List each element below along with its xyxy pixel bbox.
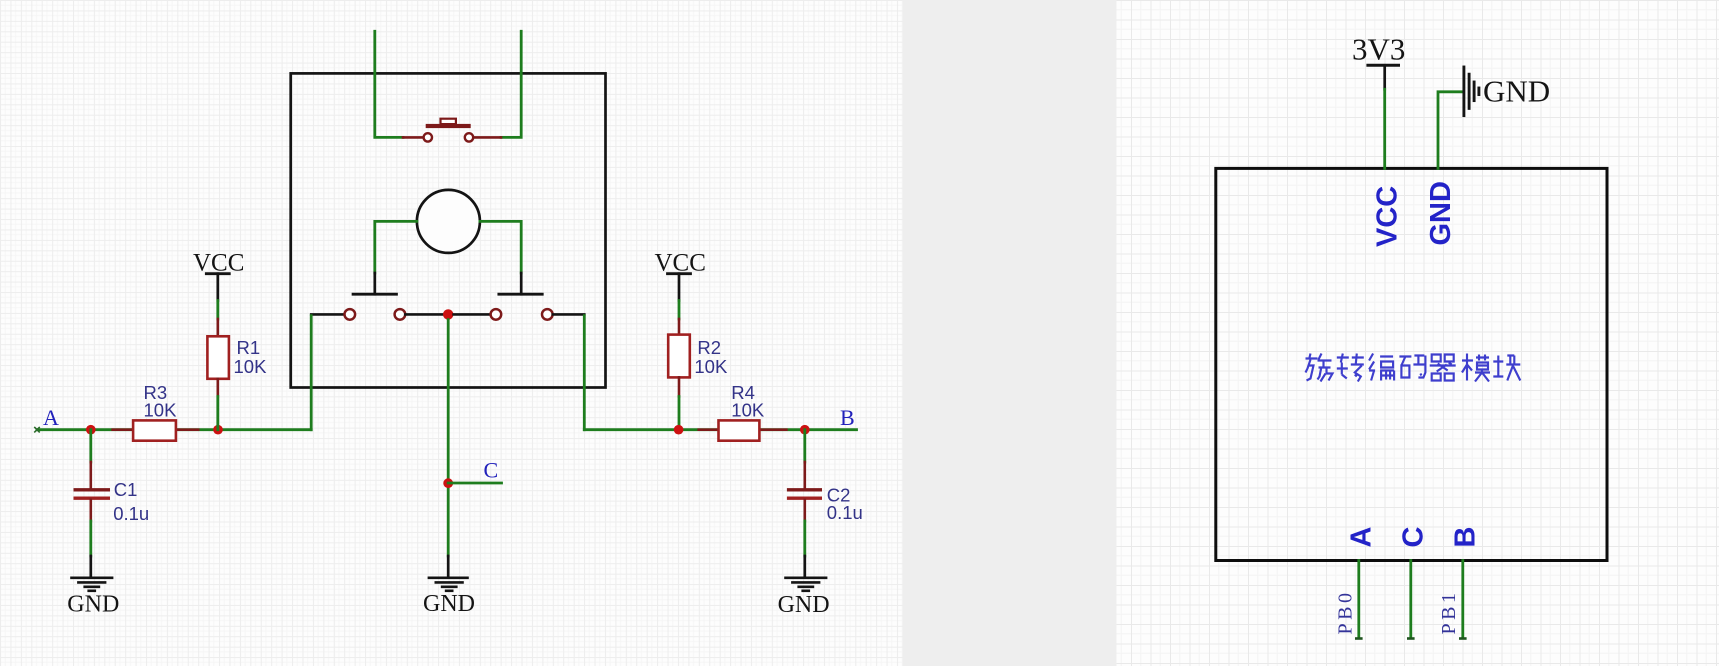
contact circle 5 (542, 309, 553, 320)
wire: 3V3 to VCC pin (1383, 89, 1386, 168)
capacitor C2 plate bottom (787, 497, 822, 500)
ground GND3 bars (786, 578, 827, 591)
power port VCC1 bar (206, 272, 229, 275)
capacitor C1 plate bottom (74, 497, 111, 500)
wire: contact row mid-left (405, 313, 442, 316)
wire: wheel right (480, 221, 521, 273)
title char 旋 (1306, 354, 1333, 382)
svg-text:GND: GND (67, 592, 119, 618)
wire: C1 to GND (89, 521, 92, 556)
push button bar (426, 124, 471, 128)
resistor R2 lead top (678, 319, 681, 335)
resistor R2 body (668, 335, 690, 378)
capacitor C2 lead bottom (803, 500, 806, 521)
power port VCC2 bar (668, 272, 691, 275)
left grid background (0, 0, 903, 666)
wire: right corner down to node B (583, 316, 586, 430)
svg-text:C: C (484, 457, 499, 482)
encoder body outline S1 (291, 73, 606, 387)
resistor R1 lead bottom (217, 379, 220, 397)
ground GND3 stem (803, 556, 806, 577)
wire: VCC2 to R2 (678, 301, 681, 320)
pin wire A (1357, 561, 1360, 638)
resistor R3 lead left (113, 428, 134, 431)
pin B end tick (1460, 637, 1465, 640)
ground GND2 bars (429, 578, 468, 591)
contact circle 2 (395, 309, 406, 320)
svg-text:C1: C1 (114, 479, 138, 500)
node A end marker (35, 428, 39, 432)
capacitor C2 plate top (787, 488, 822, 491)
resistor R3 body (133, 420, 176, 440)
wire: node C vertical (447, 320, 450, 556)
svg-text:GND: GND (423, 591, 475, 617)
resistor R2 lead bottom (678, 377, 681, 396)
svg-text:10K: 10K (234, 356, 268, 377)
svg-text:GND: GND (778, 592, 830, 618)
wire: R1 to node A (216, 397, 219, 430)
power port 3V3 stem (1383, 65, 1386, 89)
wire: wheel left (375, 221, 417, 273)
module title 旋转编码器模块 (drawn strokes) (1306, 354, 1521, 382)
pin A end tick (1356, 637, 1361, 640)
ground power port bars (1464, 67, 1479, 116)
wire: node A down to C1 (89, 430, 92, 462)
svg-text:B: B (1449, 527, 1481, 548)
right grid background (1117, 0, 1719, 666)
push button actuator (441, 119, 456, 124)
wire: contact row mid-right (454, 313, 491, 316)
wire: phase B top vertical (501, 31, 521, 137)
junction dot B-C2 (800, 425, 810, 435)
push button SW right lead (475, 136, 501, 139)
svg-text:GND: GND (1483, 74, 1550, 109)
capacitor C2 lead top (803, 462, 806, 488)
pin wire B (1461, 561, 1464, 638)
encoder wheel circle (417, 190, 480, 253)
wire: node B down to C2 (803, 430, 806, 462)
ground GND2 stem (447, 556, 450, 577)
svg-text:VCC: VCC (1372, 186, 1404, 247)
wire: phase A top vertical (375, 31, 403, 137)
push button contact right (465, 133, 473, 141)
junction dot A-C1 (86, 425, 96, 435)
pin wire C (1409, 561, 1412, 638)
wire: node A horizontal (37, 428, 311, 431)
svg-text:10K: 10K (694, 356, 728, 377)
resistor R1 body (207, 336, 229, 379)
svg-text:10K: 10K (731, 399, 765, 420)
push button SW left lead (403, 136, 423, 139)
svg-text:A: A (1345, 527, 1377, 548)
wire: contact row right (553, 313, 585, 316)
resistor R3 lead right (176, 428, 198, 431)
wire: GND pin up (1438, 92, 1463, 169)
resistor R1 lead top (217, 319, 220, 336)
contact circle 4 (491, 309, 502, 320)
svg-text:B: B (840, 405, 855, 430)
capacitor C1 plate top (74, 488, 111, 491)
wiper A bar (353, 293, 396, 296)
svg-text:A: A (43, 405, 59, 430)
wire: node C stub (448, 482, 501, 485)
power port VCC1 stem (216, 274, 219, 301)
resistor R4 body (719, 420, 760, 440)
power port VCC2 stem (678, 274, 681, 301)
wire: contact row left (311, 313, 344, 316)
title char 编 (1369, 354, 1394, 381)
push button contact left (424, 133, 432, 141)
title char 器 (1430, 355, 1456, 381)
svg-text:VCC: VCC (655, 250, 706, 277)
pin C end tick (1408, 637, 1413, 640)
title char 模 (1462, 354, 1490, 382)
svg-text:PB1: PB1 (1438, 590, 1460, 635)
svg-text:GND: GND (1425, 181, 1457, 245)
svg-text:C: C (1397, 527, 1429, 548)
svg-text:0.1u: 0.1u (113, 503, 149, 524)
resistor R4 lead left (699, 428, 719, 431)
ground GND1 stem (89, 556, 92, 577)
separator band (903, 0, 1117, 666)
wiper B stem (520, 273, 523, 294)
svg-text:VCC: VCC (193, 250, 244, 277)
module block outline (1216, 168, 1607, 560)
title char 转 (1337, 354, 1364, 382)
title char 块 (1493, 356, 1520, 381)
wire: node B horizontal (584, 428, 856, 431)
junction dot B-R2 (674, 425, 684, 435)
junction dot node C (443, 309, 453, 319)
title char 码 (1399, 356, 1425, 378)
svg-text:PB0: PB0 (1335, 590, 1357, 635)
junction dot node C stub (443, 478, 453, 488)
junction dot A-R1 (213, 425, 223, 435)
resistor R4 lead right (759, 428, 786, 431)
svg-text:0.1u: 0.1u (827, 502, 863, 523)
capacitor C1 lead bottom (90, 500, 93, 521)
wire: left corner down to node A (310, 316, 313, 430)
wiper A stem (373, 273, 376, 294)
wire: R2 to node B (678, 397, 681, 430)
wiper B bar (499, 293, 542, 296)
wire: VCC1 to R1 (216, 301, 219, 320)
ground GND1 bars (72, 578, 113, 591)
capacitor C1 lead top (90, 462, 93, 488)
power port 3V3 bar (1368, 64, 1399, 67)
wire: C2 to GND (803, 521, 806, 556)
svg-text:10K: 10K (144, 399, 178, 420)
right schematic texts (1352, 32, 1550, 109)
contact circle 1 (345, 309, 356, 320)
svg-text:3V3: 3V3 (1352, 32, 1405, 67)
